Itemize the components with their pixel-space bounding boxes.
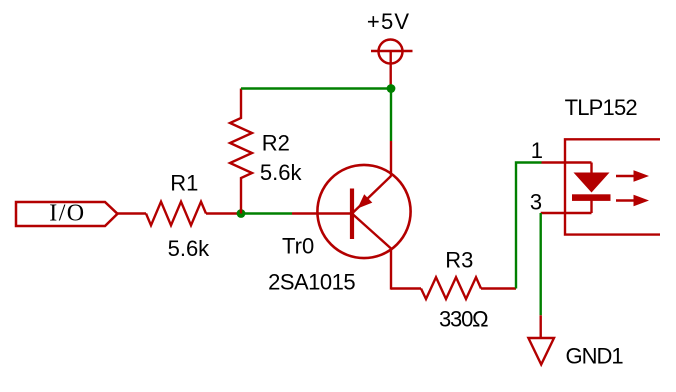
- node B junction dot: [387, 84, 396, 93]
- svg-text:R3: R3: [445, 248, 473, 273]
- svg-text:GND1: GND1: [566, 344, 624, 369]
- svg-text:5.6k: 5.6k: [260, 160, 303, 185]
- node A junction dot: [237, 209, 246, 218]
- svg-text:Tr0: Tr0: [282, 233, 314, 258]
- ground GND1 symbol: [528, 338, 554, 365]
- power +5V symbol: [371, 40, 413, 89]
- wire port to R1: [118, 212, 147, 214]
- wire collector to R3: [391, 287, 421, 289]
- svg-text:+5V: +5V: [367, 9, 410, 34]
- svg-text:5.6k: 5.6k: [168, 236, 211, 261]
- wire pin 3 down to GND1 (green): [540, 213, 542, 315]
- port P1 I/O flag: [16, 202, 118, 226]
- resistor R2: [230, 89, 252, 214]
- wire R3 to node C: [481, 287, 516, 289]
- transistor Tr0 2SA1015 (PNP): [292, 141, 411, 290]
- svg-text:3: 3: [530, 190, 542, 215]
- svg-text:R2: R2: [262, 130, 290, 155]
- pin 3 lead: [541, 212, 592, 214]
- resistor R3: [421, 277, 481, 299]
- wire R1 to node A: [206, 212, 241, 214]
- wire node A top rail (green) from R2 top to node B: [241, 87, 391, 89]
- wire node A to transistor base (green): [241, 212, 292, 214]
- optocoupler U1 TLP152 box: [565, 139, 660, 234]
- pin 1 lead: [542, 161, 592, 163]
- wire node B to emitter (green): [390, 89, 392, 142]
- svg-text:330Ω: 330Ω: [439, 307, 488, 332]
- light emission arrow 2: [616, 195, 649, 207]
- GND1 lead (red): [540, 315, 542, 338]
- wire node C up to pin 1 (green): [516, 163, 542, 289]
- LED of optocoupler: [572, 163, 611, 214]
- light emission arrow 1: [616, 170, 649, 182]
- svg-text:2SA1015: 2SA1015: [268, 269, 355, 294]
- resistor R1: [146, 202, 206, 226]
- svg-text:I/O: I/O: [49, 201, 85, 227]
- svg-text:R1: R1: [170, 170, 198, 195]
- svg-text:1: 1: [531, 138, 543, 163]
- svg-text:TLP152: TLP152: [565, 95, 638, 120]
